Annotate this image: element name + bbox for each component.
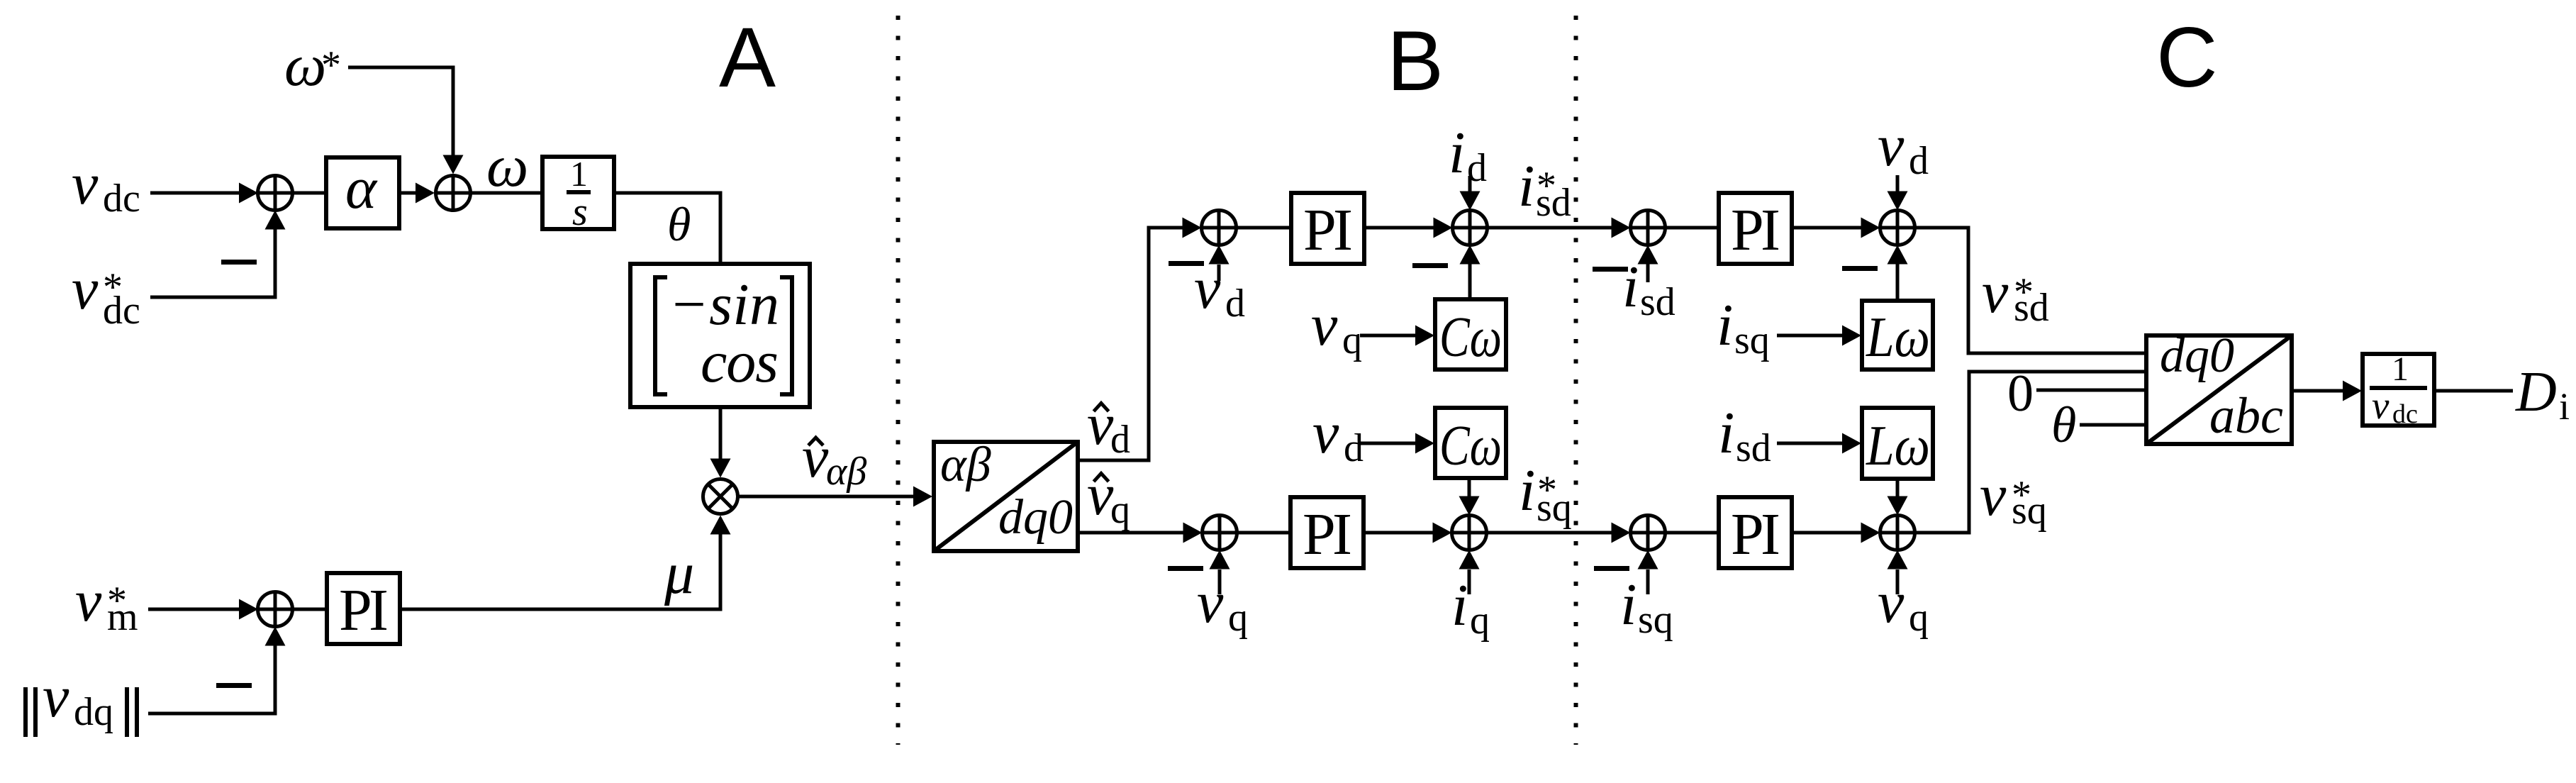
- block dq0/abc: [2146, 328, 2292, 444]
- wire v_q into S6: [1210, 550, 1230, 595]
- node label v-hat_q: [1087, 462, 1130, 532]
- block PI C1: [1719, 193, 1792, 264]
- section label C: [2156, 10, 2218, 105]
- minus sign at S10: [1594, 566, 1629, 571]
- wire theta to dq0-abc: [2080, 423, 2146, 427]
- svg-text:sd: sd: [2014, 286, 2049, 330]
- svg-text:i: i: [1518, 153, 1534, 219]
- summing junction S1: [258, 176, 293, 211]
- svg-text:−sin: −sin: [669, 272, 779, 338]
- svg-text:q: q: [1110, 488, 1130, 532]
- svg-text:sq: sq: [2012, 489, 2047, 533]
- multiplier M1: [703, 479, 738, 514]
- wire v_q to Cw1: [1360, 326, 1434, 346]
- wire i_sq to Lw1: [1777, 326, 1861, 346]
- node label D_i: [2515, 361, 2570, 428]
- svg-text:dq: dq: [74, 690, 113, 734]
- svg-text:i: i: [2559, 385, 2570, 428]
- summing junction S10: [1631, 516, 1666, 550]
- wire PI-A to multiplier: [400, 516, 731, 610]
- wire dq0-abc to 1/vdc: [2292, 381, 2362, 401]
- wire integrator to sin-cos block: [614, 193, 720, 264]
- wire i_sq into S10: [1638, 550, 1658, 595]
- wire ||v_dq|| to S3: [148, 627, 286, 714]
- wire i_sd to Lw2: [1777, 433, 1861, 454]
- svg-text:αβ: αβ: [940, 438, 991, 492]
- svg-text:dq0: dq0: [2160, 328, 2234, 383]
- node label v-hat_alphabeta: [802, 424, 866, 494]
- block -sin cos: [630, 264, 810, 407]
- svg-text:Cω: Cω: [1439, 306, 1502, 369]
- svg-text:C: C: [2156, 10, 2218, 105]
- node label i_sq under S10: [1620, 572, 1673, 642]
- wire v-hat_d to S4: [1078, 218, 1202, 461]
- wire v_dc input: [150, 183, 258, 204]
- wire i_d into S5: [1460, 176, 1481, 211]
- block PI B1: [1291, 193, 1364, 264]
- node label v_q to Cw1: [1311, 292, 1362, 362]
- wire v_q into S11: [1888, 550, 1908, 595]
- svg-text:D: D: [2515, 361, 2557, 423]
- node label ||v_dq||: [23, 664, 139, 737]
- svg-text:v: v: [1878, 113, 1905, 179]
- svg-text:Lω: Lω: [1866, 306, 1930, 369]
- summing junction S8: [1631, 211, 1666, 245]
- wire 0 to dq0-abc: [2036, 389, 2146, 392]
- svg-text:dq0: dq0: [998, 490, 1073, 545]
- svg-text:PI: PI: [1303, 501, 1352, 567]
- svg-text:i: i: [1451, 572, 1468, 638]
- wire v*_dc to S1: [150, 211, 286, 298]
- svg-text:i: i: [1718, 400, 1734, 466]
- svg-text:1: 1: [570, 154, 588, 194]
- block Cw2: [1435, 408, 1506, 478]
- wire i_q into S7: [1459, 550, 1480, 595]
- block PI B2: [1290, 497, 1364, 568]
- minus sign at S1: [221, 260, 257, 265]
- block 1/vdc: [2363, 350, 2434, 429]
- svg-text:q: q: [1342, 318, 1362, 362]
- node label i*_sd: [1518, 153, 1571, 225]
- block Lw1: [1862, 301, 1933, 370]
- wire S1 to alpha block: [293, 191, 327, 195]
- summing junction S9: [1880, 211, 1915, 245]
- wire PI-C2 to S11: [1792, 523, 1880, 543]
- wire v-hat_q to S6: [1078, 523, 1203, 543]
- svg-text:PI: PI: [339, 577, 389, 643]
- svg-text:q: q: [1470, 599, 1490, 643]
- node label v_q under S11: [1878, 570, 1929, 640]
- svg-text:i: i: [1519, 457, 1535, 523]
- svg-text:Lω: Lω: [1866, 415, 1930, 477]
- svg-text:μ: μ: [664, 540, 694, 606]
- svg-text:sd: sd: [1736, 426, 1771, 470]
- block Cw1: [1435, 299, 1506, 370]
- summing junction S5: [1453, 211, 1488, 245]
- dotted divider A|B: [896, 16, 901, 745]
- block Lw2: [1862, 408, 1933, 479]
- svg-text:dc: dc: [103, 289, 140, 333]
- svg-text:dc: dc: [2392, 399, 2418, 429]
- wire Lw2 to S11: [1888, 479, 1908, 516]
- minus sign at S6: [1168, 566, 1203, 571]
- block alphabeta/dq0: [934, 438, 1078, 551]
- node label v_dc: [72, 151, 140, 221]
- summing junction S3: [258, 592, 293, 627]
- wire Lw1 to S9: [1888, 245, 1908, 301]
- wire PI-C1 to S9: [1792, 218, 1880, 238]
- node label v*_dc: [72, 256, 140, 333]
- svg-text:θ: θ: [667, 197, 691, 251]
- svg-text:*: *: [321, 43, 341, 87]
- svg-text:v: v: [1980, 462, 2007, 528]
- svg-text:v: v: [1982, 260, 2009, 326]
- svg-text:ω: ω: [486, 133, 528, 199]
- svg-text:0: 0: [2007, 365, 2034, 423]
- node label v_d under S4: [1194, 255, 1245, 326]
- wire Cw2 to S7: [1459, 478, 1480, 516]
- wire S6 to PI-B2: [1237, 531, 1291, 535]
- minus sign at S4: [1169, 261, 1204, 266]
- node label i_q under S7: [1451, 572, 1490, 643]
- svg-text:i: i: [1449, 120, 1465, 186]
- wire alpha to S2: [399, 183, 435, 204]
- node label theta input: [2051, 396, 2076, 453]
- svg-text:v: v: [802, 424, 829, 490]
- wire sin-cos to multiplier: [710, 407, 731, 478]
- svg-text:i: i: [1620, 572, 1637, 638]
- svg-text:d: d: [1344, 426, 1364, 470]
- wire S9 to dq0-abc input1: [1915, 228, 2147, 353]
- wire PI-B1 to S5: [1364, 218, 1453, 238]
- node label mu: [664, 540, 694, 606]
- svg-text:s: s: [572, 190, 588, 234]
- node label v*_sd: [1982, 260, 2049, 330]
- node label v*_m: [75, 568, 138, 639]
- svg-text:v: v: [1311, 292, 1338, 358]
- node label theta: [667, 197, 691, 251]
- svg-text:i: i: [1622, 254, 1639, 320]
- svg-text:d: d: [1110, 418, 1130, 462]
- minus sign at S8: [1593, 267, 1628, 272]
- node label i_sd under S8: [1622, 254, 1675, 324]
- summing junction S4: [1202, 211, 1237, 245]
- svg-text:abc: abc: [2209, 387, 2283, 444]
- svg-text:sd: sd: [1536, 181, 1571, 225]
- svg-text:Cω: Cω: [1439, 415, 1502, 477]
- wire omega* to S2: [348, 67, 464, 174]
- summing junction S6: [1203, 516, 1237, 550]
- wire multiplier to alphabeta-dq0 block: [738, 487, 933, 507]
- node label v*_sq: [1980, 462, 2047, 533]
- svg-text:v: v: [75, 568, 102, 634]
- node label i*_sq: [1519, 457, 1572, 530]
- wire PI-B2 to S7: [1364, 523, 1452, 543]
- svg-text:αβ: αβ: [826, 450, 866, 494]
- wire v_d into S9: [1888, 175, 1908, 211]
- svg-text:ω: ω: [284, 33, 326, 99]
- wire output D_i: [2434, 389, 2513, 393]
- svg-text:1: 1: [2392, 350, 2409, 388]
- svg-text:v: v: [1878, 570, 1905, 635]
- summing junction S7: [1452, 516, 1487, 550]
- svg-text:q: q: [1228, 596, 1248, 640]
- svg-text:sd: sd: [1640, 280, 1675, 324]
- minus sign at S9: [1842, 266, 1878, 271]
- svg-text:d: d: [1225, 282, 1245, 326]
- node label v_d above S9: [1878, 113, 1929, 183]
- minus sign at S3: [216, 683, 252, 688]
- node label v-hat_d: [1087, 391, 1130, 462]
- wire S5 to S8: [1488, 218, 1631, 238]
- svg-text:v: v: [2372, 384, 2390, 427]
- section label B: [1387, 13, 1444, 109]
- node label 0 input: [2007, 365, 2034, 423]
- node label v_q under S6: [1197, 570, 1248, 640]
- summing junction S11: [1880, 516, 1915, 550]
- svg-text:B: B: [1387, 13, 1444, 109]
- svg-text:θ: θ: [2051, 396, 2076, 453]
- summing junction S2: [436, 176, 471, 211]
- node label omega*: [284, 33, 341, 99]
- svg-text:sq: sq: [1734, 318, 1770, 362]
- wire S10 to PI-C2: [1666, 531, 1719, 535]
- wire v*_m to S3: [148, 599, 258, 620]
- wire v_d to Cw2: [1359, 433, 1434, 454]
- wire S2 to integrator: [471, 191, 543, 195]
- svg-text:v: v: [1312, 400, 1339, 466]
- node label i_sq to Lw1: [1717, 292, 1770, 362]
- wire S8 to PI-C1: [1666, 226, 1719, 230]
- svg-text:v: v: [43, 664, 69, 730]
- block alpha: [326, 155, 399, 228]
- section label A: [719, 10, 776, 105]
- svg-text:cos: cos: [701, 329, 779, 395]
- svg-text:α: α: [345, 155, 378, 221]
- svg-text:A: A: [719, 10, 776, 105]
- svg-text:v: v: [1194, 255, 1221, 321]
- block PI C2: [1719, 497, 1792, 568]
- block integrator 1/s: [542, 154, 614, 234]
- svg-text:dc: dc: [103, 177, 140, 221]
- wire S3 to PI-A: [293, 608, 328, 611]
- wire S7 to S10: [1487, 523, 1631, 543]
- node label omega: [486, 133, 528, 199]
- node label i_sd to Lw2: [1718, 400, 1771, 470]
- svg-text:sq: sq: [1638, 598, 1673, 642]
- svg-text:d: d: [1909, 139, 1929, 183]
- wire v_d into S4: [1209, 245, 1230, 282]
- svg-text:m: m: [107, 595, 138, 639]
- node label i_d: [1449, 120, 1487, 190]
- svg-text:PI: PI: [1731, 197, 1780, 263]
- dotted divider B|C: [1574, 16, 1578, 745]
- block PI A: [327, 573, 400, 644]
- node label v_d to Cw2: [1312, 400, 1364, 470]
- svg-text:q: q: [1909, 596, 1929, 640]
- svg-text:v: v: [72, 151, 99, 217]
- svg-text:PI: PI: [1731, 501, 1780, 567]
- svg-text:i: i: [1717, 292, 1733, 358]
- svg-text:PI: PI: [1303, 197, 1353, 263]
- svg-text:sq: sq: [1537, 486, 1572, 530]
- wire S4 to PI-B1: [1237, 226, 1292, 230]
- minus sign at S5: [1412, 263, 1448, 268]
- svg-text:v: v: [72, 256, 99, 322]
- wire S11 to dq0-abc input2: [1915, 372, 2147, 533]
- wire Cw1 to S5: [1460, 245, 1481, 300]
- wire i_sd into S8: [1638, 245, 1658, 283]
